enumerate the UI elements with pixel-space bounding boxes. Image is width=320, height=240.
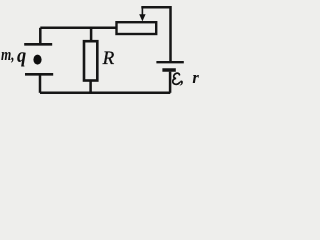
- svg-text:m,: m,: [1, 45, 15, 64]
- svg-text:q: q: [17, 43, 26, 67]
- wire: capacitor top stub: [39, 28, 42, 44]
- wire: capacitor bottom stub: [39, 74, 42, 93]
- wire: bottom horizontal: [40, 92, 170, 95]
- wire: resistor top stub: [90, 28, 93, 41]
- svg-text:,: ,: [179, 68, 184, 87]
- svg-text:R: R: [102, 48, 115, 69]
- wire: wiper to top-right corner and down to battery: [141, 7, 170, 61]
- svg-text:r: r: [192, 68, 199, 87]
- charged particle dot: [33, 55, 41, 65]
- resistor R body: [84, 41, 97, 80]
- rheostat wiper arrowhead: [139, 14, 145, 21]
- capacitor top plate: [24, 43, 52, 46]
- capacitor bottom plate: [25, 73, 53, 76]
- rheostat wiper arrow stem: [141, 7, 143, 15]
- label script E (emf): [173, 73, 180, 84]
- rheostat body: [117, 22, 157, 34]
- wire: battery bottom stub: [169, 72, 172, 93]
- wire: top-left horizontal from capacitor to rheostat: [40, 27, 116, 30]
- battery long plate: [156, 61, 183, 63]
- wire: resistor bottom stub: [89, 81, 92, 93]
- paper background: [0, 0, 203, 100]
- battery short thick plate: [162, 68, 175, 72]
